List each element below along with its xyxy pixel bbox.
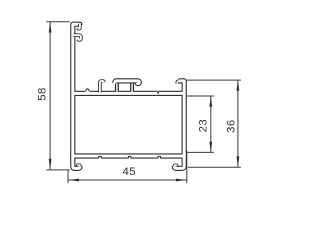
bottom wall tick marks (97, 156, 162, 160)
dimension 45 arrow right (176, 179, 187, 182)
dimension 58 arrow up (49, 22, 52, 33)
foot left (73, 153, 80, 168)
dimension 36 line (237, 80, 239, 167)
svg-text:23: 23 (198, 119, 210, 133)
T-rib cap white core (115, 81, 140, 84)
T-rib cap (115, 81, 140, 84)
T-rib stems white core (116, 83, 118, 92)
dimension 36 arrow up (237, 80, 240, 91)
foot right tip (174, 165, 176, 166)
floor V notch detail (156, 90, 160, 93)
dimension 45 extension right (186, 151, 188, 184)
profile aluminium section: dark skeleton strokes (73, 24, 184, 168)
profile white core overdraw (73, 24, 184, 168)
dimension 36 extension bottom (188, 166, 241, 168)
T-rib stem right (130, 83, 134, 92)
feet white cores (73, 153, 80, 168)
dimension 23 arrow up (209, 96, 212, 107)
floor bump detail (85, 89, 90, 92)
svg-text:58: 58 (37, 87, 49, 101)
dimension 36 arrow down (237, 156, 240, 167)
T-rib stem left (115, 83, 119, 92)
post with hook (100, 81, 104, 92)
floor top wall white core (73, 92, 184, 95)
dimension 45 line (68, 179, 186, 181)
wire main outline: leg, bottom wall, right wall, right cap hook (73, 24, 184, 156)
foot left tip (78, 165, 80, 166)
floor top wall (73, 91, 184, 96)
right cap hook curl (177, 81, 179, 84)
small hook tips: thin tube strokes (dark) (74, 24, 179, 167)
svg-text:36: 36 (225, 119, 237, 133)
dimension 58 arrow down (49, 159, 52, 170)
dimension 23 extension bottom (187, 151, 214, 153)
dimension 58 line (49, 22, 51, 169)
thin hook tips white cores (78, 24, 80, 29)
dimension 45 extension left (67, 170, 69, 183)
hook top of leg (78, 24, 80, 29)
dimension 36 extension top (186, 79, 241, 81)
svg-text:45: 45 (123, 166, 137, 178)
dimension 23 line (210, 96, 212, 152)
dimension 58 extension top (46, 21, 70, 23)
dimension 23 extension top (187, 95, 214, 97)
dimension 45 arrow left (68, 179, 79, 182)
hook second on leg (74, 35, 81, 40)
dimension 23 arrow down (209, 142, 212, 153)
dimension 58 extension bottom (46, 169, 70, 171)
foot right (174, 153, 184, 168)
wire main outline white core (73, 24, 184, 156)
